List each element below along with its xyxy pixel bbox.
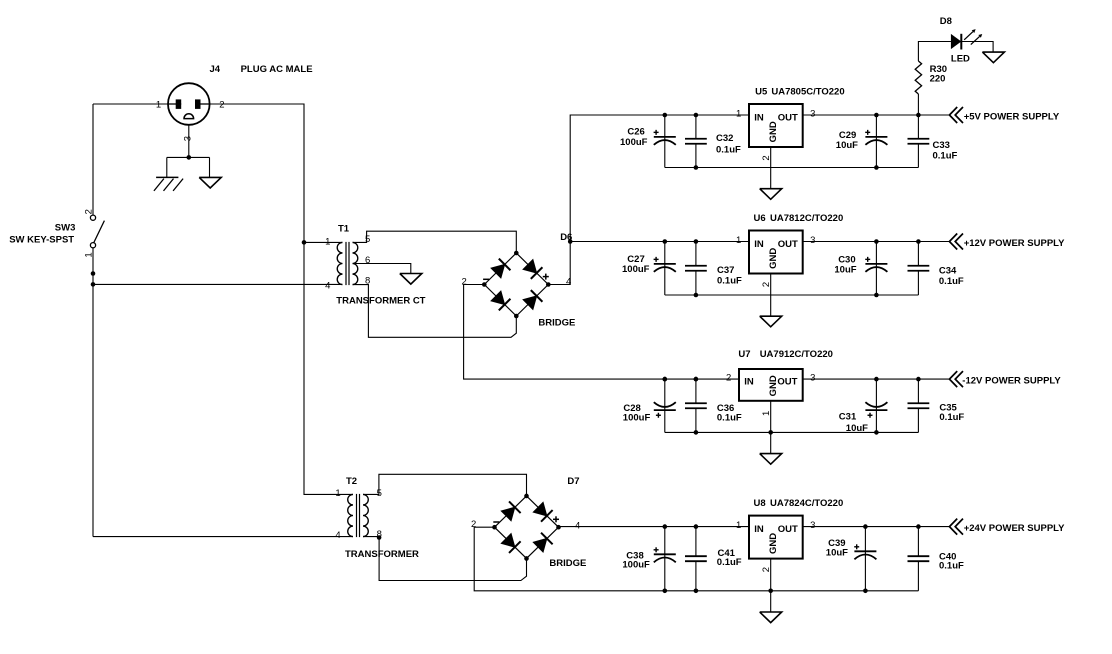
- svg-text:C29: C29: [839, 130, 856, 141]
- svg-text:3: 3: [810, 109, 815, 120]
- svg-text:IN: IN: [754, 524, 764, 535]
- svg-text:OUT: OUT: [777, 376, 797, 387]
- svg-text:OUT: OUT: [778, 239, 798, 250]
- svg-text:1: 1: [84, 252, 95, 257]
- svg-text:+12V POWER SUPPLY: +12V POWER SUPPLY: [964, 238, 1065, 249]
- svg-text:U5: U5: [755, 86, 768, 97]
- svg-text:0.1uF: 0.1uF: [939, 561, 964, 572]
- svg-text:1: 1: [736, 520, 741, 531]
- svg-text:-12V POWER SUPPLY: -12V POWER SUPPLY: [962, 375, 1061, 386]
- svg-text:UA7912C/TO220: UA7912C/TO220: [760, 349, 833, 360]
- svg-text:5: 5: [365, 234, 370, 245]
- svg-text:100uF: 100uF: [620, 137, 648, 148]
- svg-text:10uF: 10uF: [846, 423, 868, 434]
- svg-text:10uF: 10uF: [834, 264, 856, 275]
- svg-text:3: 3: [182, 136, 193, 141]
- svg-text:U8: U8: [754, 498, 766, 509]
- svg-text:1: 1: [761, 411, 772, 416]
- svg-text:SW KEY-SPST: SW KEY-SPST: [9, 235, 74, 246]
- svg-text:BRIDGE: BRIDGE: [549, 558, 586, 569]
- svg-text:J4: J4: [210, 64, 221, 75]
- svg-text:3: 3: [810, 373, 815, 384]
- svg-text:0.1uF: 0.1uF: [716, 144, 741, 155]
- svg-text:UA7805C/TO220: UA7805C/TO220: [771, 86, 844, 97]
- svg-text:BRIDGE: BRIDGE: [538, 317, 575, 328]
- svg-text:0.1uF: 0.1uF: [933, 150, 958, 161]
- svg-text:IN: IN: [754, 239, 764, 250]
- svg-text:UA7824C/TO220: UA7824C/TO220: [770, 498, 843, 509]
- svg-text:1: 1: [736, 109, 741, 120]
- svg-text:OUT: OUT: [778, 524, 798, 535]
- svg-text:0.1uF: 0.1uF: [939, 412, 964, 423]
- svg-text:OUT: OUT: [778, 112, 798, 123]
- svg-text:U6: U6: [754, 213, 766, 224]
- svg-text:0.1uF: 0.1uF: [717, 412, 742, 423]
- svg-text:2: 2: [84, 209, 95, 214]
- svg-text:0.1uF: 0.1uF: [939, 276, 964, 287]
- svg-text:4: 4: [575, 520, 580, 531]
- svg-text:SW3: SW3: [55, 223, 76, 234]
- svg-text:GND: GND: [768, 375, 779, 396]
- svg-text:100uF: 100uF: [622, 559, 650, 570]
- svg-text:10uF: 10uF: [836, 140, 858, 151]
- svg-text:+5V POWER SUPPLY: +5V POWER SUPPLY: [964, 111, 1060, 122]
- svg-text:2: 2: [471, 519, 476, 530]
- svg-text:3: 3: [810, 520, 815, 531]
- svg-text:1: 1: [325, 236, 330, 247]
- svg-text:2: 2: [761, 567, 772, 572]
- svg-text:2: 2: [761, 282, 772, 287]
- svg-text:3: 3: [810, 235, 815, 246]
- svg-text:4: 4: [335, 530, 340, 541]
- svg-text:6: 6: [365, 255, 370, 266]
- svg-text:GND: GND: [768, 121, 779, 142]
- svg-text:2: 2: [726, 373, 731, 384]
- svg-text:1: 1: [156, 100, 161, 111]
- svg-text:TRANSFORMER CT: TRANSFORMER CT: [336, 296, 425, 307]
- svg-text:0.1uF: 0.1uF: [717, 275, 742, 286]
- svg-text:220: 220: [930, 74, 946, 85]
- svg-text:1: 1: [335, 488, 340, 499]
- svg-text:T1: T1: [338, 223, 350, 234]
- svg-text:UA7812C/TO220: UA7812C/TO220: [770, 213, 843, 224]
- svg-text:C31: C31: [839, 412, 857, 423]
- svg-text:10uF: 10uF: [826, 548, 848, 559]
- svg-text:2: 2: [761, 155, 772, 160]
- svg-text:100uF: 100uF: [623, 412, 651, 423]
- svg-text:D8: D8: [940, 16, 952, 27]
- svg-text:2: 2: [219, 100, 224, 111]
- svg-text:1: 1: [736, 235, 741, 246]
- svg-text:C32: C32: [716, 133, 733, 144]
- svg-text:GND: GND: [768, 533, 779, 554]
- svg-text:0.1uF: 0.1uF: [717, 557, 742, 568]
- svg-text:GND: GND: [768, 248, 779, 269]
- svg-text:LED: LED: [951, 54, 970, 65]
- svg-text:IN: IN: [754, 112, 764, 123]
- svg-text:T2: T2: [346, 476, 357, 487]
- svg-text:IN: IN: [744, 376, 754, 387]
- svg-text:+24V POWER SUPPLY: +24V POWER SUPPLY: [964, 523, 1065, 534]
- svg-text:D7: D7: [567, 476, 579, 487]
- svg-text:100uF: 100uF: [622, 264, 650, 275]
- svg-text:4: 4: [325, 280, 330, 291]
- svg-text:TRANSFORMER: TRANSFORMER: [345, 549, 419, 560]
- svg-text:C26: C26: [627, 126, 644, 137]
- svg-text:U7: U7: [738, 349, 750, 360]
- svg-text:PLUG AC MALE: PLUG AC MALE: [241, 64, 313, 75]
